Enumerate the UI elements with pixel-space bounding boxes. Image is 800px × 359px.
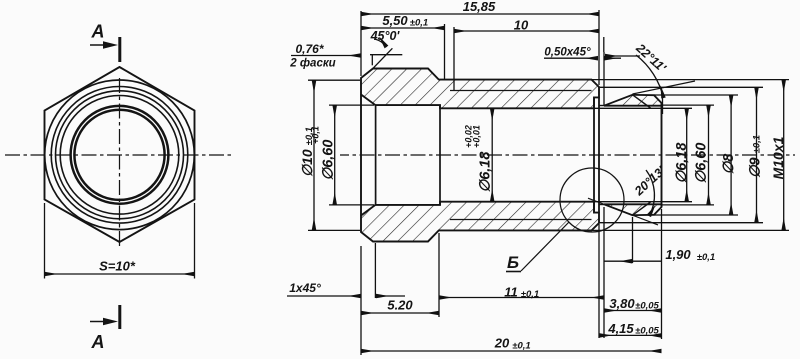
body lower half (hatched) (361, 202, 599, 242)
thread root line lower (450, 219, 592, 221)
nose upper wedge (hatched) (604, 95, 662, 106)
svg-text:11: 11 (504, 285, 518, 300)
svg-text:∅6,18: ∅6,18 (674, 142, 690, 184)
orifice disc right wall (598, 97, 600, 212)
ext line x599 top (598, 10, 600, 85)
orifice disc left wall (593, 97, 595, 212)
dim 5.20 (361, 312, 439, 314)
svg-text:2 фаски: 2 фаски (289, 58, 335, 70)
nose right face (661, 103, 663, 207)
SECTION VIEW (340, 69, 795, 273)
angular dim 20deg13' (631, 163, 668, 216)
dim phi8 (721, 95, 737, 215)
dim phi10 left (299, 80, 360, 230)
svg-text:0,50x45°: 0,50x45° (544, 47, 591, 59)
dim phi6,18 right (674, 108, 690, 201)
section arrow bottom (90, 305, 120, 329)
centerline horizontal (left view) (5, 154, 232, 156)
svg-text:M10x1: M10x1 (770, 136, 786, 179)
small chamfer dim arrow (376, 295, 405, 297)
svg-text:3,80: 3,80 (609, 296, 635, 311)
bottom extension lines (361, 207, 662, 355)
dimension S=10 (45, 203, 195, 279)
left face through-edge (360, 95, 362, 216)
svg-text:Б: Б (507, 253, 519, 272)
svg-text:5,50: 5,50 (382, 13, 408, 28)
centerline vertical (left view) (119, 78, 121, 247)
entry chamfer through-edge (375, 105, 377, 205)
hexagon outline (45, 67, 195, 242)
ext line x603.6 (3.80 / chamfer) (603, 37, 605, 52)
svg-text:∅8: ∅8 (721, 153, 737, 175)
dim phi9 +-0,1 (748, 87, 764, 222)
nose neck line upper (599, 105, 604, 107)
dim 10 (454, 30, 599, 32)
ext line x444.5 (5.50) (444, 24, 446, 80)
dim phi6,60 left (311, 105, 375, 205)
cone extension line lower (for 20deg13) (588, 198, 658, 225)
svg-text:+0,1: +0,1 (311, 126, 321, 144)
cone extension line upper (for 22deg11) (633, 81, 696, 94)
svg-text:S=10*: S=10* (99, 259, 136, 274)
DIMENSIONS (287, 0, 789, 355)
dim 3,80 +-0,05 (604, 310, 662, 312)
thread root line upper (450, 90, 592, 92)
svg-text:45°0': 45°0' (370, 29, 401, 43)
svg-text:A: A (91, 22, 105, 42)
svg-text:1x45°: 1x45° (289, 281, 321, 295)
nose neck line lower (599, 204, 604, 206)
ext line x454 (10) (453, 27, 455, 90)
svg-text:20: 20 (494, 336, 510, 351)
svg-text:±0,05: ±0,05 (635, 325, 659, 336)
svg-text:±0,1: ±0,1 (512, 341, 530, 352)
leader to label B (521, 222, 569, 271)
circle thread OD r75 (45, 80, 195, 230)
svg-text:∅6,60: ∅6,60 (694, 143, 710, 184)
svg-text:∅6,60: ∅6,60 (321, 140, 337, 181)
detail circle B (560, 168, 624, 232)
svg-text:±0,1: ±0,1 (410, 18, 428, 29)
circle phi9 r68.5 (51, 87, 188, 224)
nose seat line upper (633, 95, 651, 108)
svg-text:±0,05: ±0,05 (635, 300, 659, 311)
svg-text:A: A (91, 332, 105, 352)
dim 11 +-0,1 (439, 297, 604, 299)
svg-text:4,15: 4,15 (607, 321, 634, 336)
svg-text:5.20: 5.20 (387, 298, 413, 313)
dim phi6,60 right (694, 105, 710, 205)
dim phi6,18 centre (464, 108, 494, 201)
centerline horizontal (section) (340, 154, 795, 156)
svg-text:±0,1: ±0,1 (697, 252, 715, 263)
dim 5,50 +-0,1 (361, 27, 445, 29)
dim M10x1 (770, 80, 786, 231)
dim 1,90 +-0,1 (604, 260, 632, 262)
dim 15,85 (361, 13, 599, 15)
right side extension lines (592, 80, 790, 231)
section arrow top (90, 37, 120, 62)
nose seat line lower (633, 202, 651, 215)
dim 20 +-0,1 (361, 350, 662, 352)
svg-text:10: 10 (514, 18, 529, 33)
ext line left face x361 top (360, 11, 362, 76)
dim 4,15 +-0,05 (599, 334, 662, 336)
svg-text:∅6,18: ∅6,18 (478, 151, 494, 193)
circle bore r45.2 (74, 110, 164, 200)
body upper half (hatched) (361, 69, 599, 109)
svg-text:15,85: 15,85 (463, 0, 496, 14)
counterbore step through-edge (439, 105, 441, 205)
label B underline (506, 271, 521, 273)
angular dim 22deg11' (605, 40, 669, 114)
svg-text:+0,01: +0,01 (472, 125, 482, 148)
circle counterbore r49.8 (71, 106, 169, 204)
circle thread root r64.3 (56, 91, 184, 219)
circle phi8 r59.5 (60, 96, 179, 215)
nose lower wedge (hatched) (604, 204, 662, 215)
svg-text:±0,1: ±0,1 (521, 289, 539, 300)
svg-text:1,90: 1,90 (665, 247, 691, 262)
LEFT VIEW (5, 22, 232, 353)
ext line x604 upper (603, 52, 605, 105)
svg-text:0,76*: 0,76* (295, 42, 324, 56)
